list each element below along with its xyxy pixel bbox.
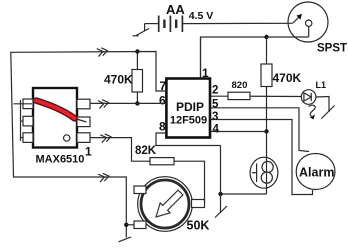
- wire pin6 net: [90, 102, 166, 104]
- svg-text:5: 5: [212, 99, 219, 111]
- wire pin4 stub: [210, 131, 267, 133]
- resistor 820: [228, 92, 250, 99]
- svg-text:3: 3: [212, 111, 218, 123]
- svg-text:820: 820: [232, 80, 248, 91]
- svg-text:470K: 470K: [273, 71, 302, 85]
- chevron on bottom wire: [98, 172, 109, 182]
- node junction pot bottom wire: [124, 223, 128, 227]
- wire battery minus stub with tick: [133, 24, 150, 36]
- node junction pin8 net: [218, 192, 222, 196]
- wire pin2 to 820: [210, 95, 228, 97]
- chevron pin6 wire: [98, 99, 109, 109]
- band tail tick into middle pin: [77, 119, 87, 122]
- wire 820 to LED: [250, 95, 301, 97]
- svg-text:Alarm: Alarm: [299, 166, 334, 180]
- svg-text:4: 4: [213, 123, 220, 135]
- svg-text:470K: 470K: [104, 73, 133, 87]
- wire battery+ to switch lever: [182, 22, 292, 24]
- wire 82K to pot right terminal: [174, 161, 205, 203]
- pin 1 wire: [200, 37, 202, 79]
- pin1 dot indicator: [63, 135, 69, 141]
- wire through bulb down to pin8 net: [266, 132, 268, 195]
- chevron on top wire: [97, 47, 108, 57]
- chevron 82K wire: [100, 133, 111, 143]
- battery AA 4.5V: [145, 16, 183, 33]
- wire MAX bottom pin to 82K: [90, 138, 150, 162]
- wire pin5 to alarm top: [210, 108, 309, 152]
- svg-text:6: 6: [159, 94, 166, 108]
- node junction pin4 / bulb top: [264, 129, 268, 133]
- svg-text:1: 1: [85, 145, 92, 159]
- resistor 470K left: [132, 52, 143, 104]
- bulb / sensor lamp: [250, 157, 278, 188]
- svg-text:MAX6510: MAX6510: [36, 154, 85, 166]
- node junction pin6: [135, 101, 139, 105]
- svg-text:L1: L1: [316, 80, 327, 90]
- left pins bracket to rail: [20, 100, 22, 141]
- resistor 470K right: [261, 37, 272, 132]
- svg-text:4.5 V: 4.5 V: [189, 10, 214, 22]
- node junction V+ / 470K right: [264, 35, 268, 39]
- PIC PDIP 12F509: [166, 79, 210, 138]
- svg-text:8: 8: [159, 120, 166, 134]
- potentiometer 50K: [134, 177, 205, 232]
- wire pin8 vertical with end tick: [215, 146, 227, 218]
- switch SPST: [288, 2, 328, 42]
- wire switch lower rail to PIC pin1: [201, 37, 309, 79]
- node junction top: [135, 49, 139, 53]
- resistor 82K: [150, 158, 174, 165]
- wire pin8 from PIC: [156, 133, 221, 146]
- LED L1: [301, 90, 316, 105]
- svg-text:82K: 82K: [135, 145, 157, 157]
- alarm sounder: [296, 154, 335, 190]
- wire LED out with end tick: [316, 97, 335, 119]
- svg-text:PDIP: PDIP: [176, 100, 204, 114]
- wire pin3 to alarm bottom: [210, 120, 313, 195]
- svg-text:SPST: SPST: [317, 43, 347, 55]
- wire V+ rail: pin7 to top-left corner down to pot: [11, 52, 167, 238]
- wire switch contact down: [308, 26, 310, 37]
- svg-text:12F509: 12F509: [170, 115, 207, 127]
- wire to pot bottom-left terminal: [126, 224, 134, 226]
- svg-text:2: 2: [212, 85, 218, 97]
- end tick diagonal: [119, 237, 132, 242]
- svg-text:1: 1: [202, 66, 209, 80]
- svg-text:50K: 50K: [187, 219, 210, 233]
- MAX6510 temperature switch: [23, 88, 90, 148]
- squiggle mark below LED: [309, 105, 316, 116]
- svg-text:AA: AA: [166, 2, 185, 17]
- red sensor band: [36, 101, 75, 119]
